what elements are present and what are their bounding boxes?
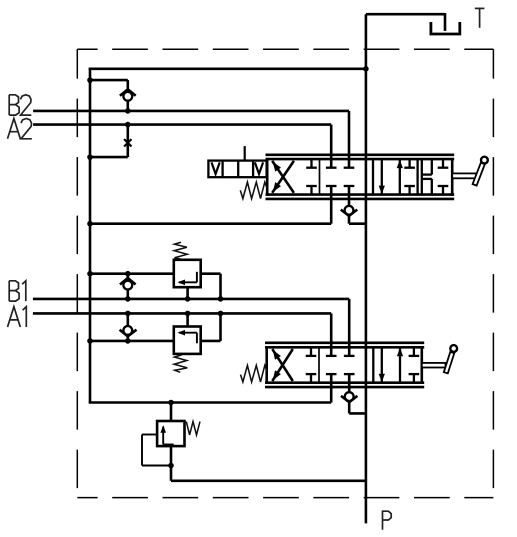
- node RV1-B1 right junction: [218, 296, 224, 302]
- label A2: [8, 119, 32, 139]
- node A2-orifice junction: [125, 122, 131, 128]
- valve DV1 H-section: [422, 159, 432, 195]
- wire bottom header: [89, 401, 332, 404]
- wire P-T main vertical: [365, 14, 368, 523]
- label B2: [9, 95, 31, 115]
- label B1: [9, 281, 26, 301]
- spring DV1 return: [240, 182, 267, 199]
- wire DV2 B-port down: [348, 374, 351, 392]
- valve DV1 up-arrow flow: [397, 160, 403, 195]
- valve DV1 port bar B2 bottom: [344, 185, 355, 187]
- tank symbol T: [431, 22, 460, 34]
- wire RV1 right link: [201, 274, 221, 299]
- port line B1: [33, 299, 349, 356]
- valve DV1 section dividers: [320, 159, 422, 195]
- lever DV1 handle: [473, 157, 488, 186]
- wire RV3 outlet: [171, 446, 366, 481]
- lever DV2 handle: [444, 345, 457, 373]
- wire DV1 A-port down: [90, 186, 331, 224]
- node top header junction: [363, 66, 369, 72]
- valve DV2 crossed-flow section: [272, 349, 293, 381]
- node RV2-A1 top junction: [185, 311, 191, 317]
- valve DV1 blocked port S3 bottom: [404, 186, 415, 195]
- node CV1-B2 junction: [125, 108, 131, 114]
- lever DV1 rod: [452, 173, 476, 178]
- valve DV2 port bar A1 bottom: [326, 373, 337, 375]
- node trunk A-port junction: [87, 221, 93, 227]
- wire orifice branch: [90, 125, 128, 158]
- node trunk-A1 feed: [87, 338, 93, 344]
- wire B2 branch: [90, 80, 128, 90]
- valve DV1 crossed-flow section: [272, 161, 294, 193]
- valve DV1 port bar A2 bottom: [326, 185, 337, 187]
- spring DV2 return: [241, 365, 268, 382]
- valve DV1 blocked port S4 bottom: [438, 186, 449, 195]
- check valve CV3: [120, 313, 137, 341]
- valve DV2 port bar B1 top: [344, 355, 355, 357]
- check valve CV5 under DV2: [341, 392, 366, 413]
- enclosure dashed boundary: [77, 49, 493, 497]
- valve DV1 body edges: [267, 158, 452, 196]
- valve DV1 blocked port S1 top: [306, 159, 317, 168]
- valve DV1 port bar A2 top: [326, 167, 337, 169]
- valve DV1 blocked port S1 bottom: [306, 186, 317, 195]
- valve DV2 blocked port S3 bottom: [409, 374, 420, 383]
- wire RV3 pilot bypass: [142, 435, 171, 466]
- relief valve RV3 body: [157, 421, 184, 446]
- wire RV2 top link: [186, 313, 189, 326]
- port line B2: [33, 111, 349, 168]
- pilot box V mark left: [212, 162, 220, 174]
- label T: [475, 8, 485, 27]
- valve DV2 port bar A1 top: [326, 355, 337, 357]
- node CV2 top junction: [125, 271, 131, 277]
- pilot box DV1: [208, 161, 266, 178]
- wire A1 feed: [90, 340, 174, 343]
- lever DV2 rod: [422, 363, 446, 368]
- node trunk-B1 feed: [87, 271, 93, 277]
- spring RV2: [174, 355, 187, 373]
- valve DV1 down-arrow flow: [379, 159, 385, 194]
- valve DV2 body edges: [267, 346, 422, 384]
- wire RV2 right link: [201, 313, 221, 341]
- valve DV1 blocked port S3 top: [404, 159, 415, 168]
- valve DV2 rails: [265, 343, 424, 387]
- node trunk-B2 branch: [87, 77, 93, 83]
- check valve CV1: [120, 89, 136, 111]
- wire B1 feed: [90, 272, 174, 275]
- node RV3 bypass junction: [168, 463, 174, 469]
- node bottom header RV3 tap: [168, 400, 174, 406]
- node RV1-B1 bottom junction: [185, 296, 191, 302]
- wire T-line top: [366, 13, 445, 31]
- node CV3 bottom junction: [125, 338, 131, 344]
- valve DV2 blocked port S1 bottom: [306, 374, 317, 383]
- node CV2-B1 junction: [125, 296, 131, 302]
- pilot box V mark right: [255, 162, 263, 174]
- valve DV2 blocked port S3 top: [409, 347, 420, 356]
- relief valve RV1 body: [174, 260, 201, 287]
- relief valve RV2 internal arrow: [178, 330, 197, 343]
- valve DV1 blocked port S4 top: [438, 159, 449, 168]
- node orifice-trunk junction: [87, 154, 93, 160]
- check valve CV4 under DV1: [341, 206, 366, 224]
- valve DV1 port bar B2 top: [344, 167, 355, 169]
- label A1: [8, 307, 27, 327]
- check valve CV2: [120, 274, 136, 299]
- valve DV2 down-arrow flow: [379, 347, 385, 382]
- port line A2: [33, 125, 331, 168]
- wire left trunk vertical: [89, 68, 92, 403]
- valve DV1 rails: [266, 155, 455, 199]
- label P: [383, 511, 392, 530]
- node RV2-A1 right junction: [218, 311, 224, 317]
- valve DV2 blocked port S1 top: [306, 347, 317, 356]
- relief valve RV1 internal arrow: [178, 272, 197, 285]
- wire RV1 bottom link: [186, 287, 189, 299]
- valve DV2 section dividers: [319, 347, 373, 382]
- relief valve RV3 internal arrow: [160, 425, 173, 444]
- valve DV2 up-arrow flow: [397, 348, 403, 383]
- spring RV3: [186, 422, 200, 435]
- orifice (restrictor X): [124, 139, 131, 146]
- wire RV3 feed: [170, 403, 173, 422]
- wire DV2 A-port down: [330, 374, 333, 402]
- wire top header: [89, 68, 366, 71]
- wire DV1 B-port down: [348, 186, 351, 206]
- valve DV2 port bar B1 bottom: [344, 373, 355, 375]
- port line A1: [33, 313, 331, 356]
- spring RV1: [174, 242, 187, 259]
- node A1-CV3 junction: [125, 311, 131, 317]
- pilot vent line: [244, 146, 246, 161]
- relief valve RV2 body: [174, 327, 201, 354]
